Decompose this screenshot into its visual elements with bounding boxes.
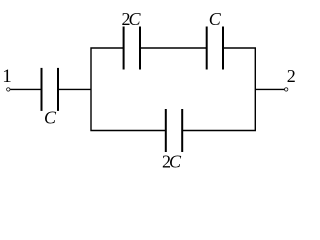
wire left junction corners (top-left and bottom-left of loop) — [91, 48, 166, 131]
capacitor C3 left plate (top C) — [206, 27, 208, 70]
capacitor C3 right plate (top C) — [222, 27, 224, 70]
wire C1 to left junction — [58, 88, 91, 90]
wire right junction corners (top-right and bottom-right of loop) — [182, 48, 255, 131]
capacitor C2 right plate (top 2C) — [139, 27, 141, 70]
svg-text:2C: 2C — [121, 9, 141, 29]
svg-text:2C: 2C — [162, 151, 182, 171]
capacitor C2 left plate (top 2C) — [123, 27, 125, 70]
capacitor C1 left plate — [41, 68, 43, 111]
svg-text:1: 1 — [2, 66, 12, 87]
node 1 terminal — [7, 88, 10, 91]
capacitor C1 right plate — [57, 68, 59, 111]
wire terminal1 to C1 — [10, 88, 41, 90]
capacitor C4 right plate (bottom 2C) — [181, 109, 183, 152]
node 2 terminal — [285, 88, 288, 91]
svg-text:2: 2 — [287, 66, 296, 86]
svg-text:C: C — [209, 9, 222, 29]
wire right junction to terminal 2 — [255, 88, 284, 90]
svg-text:C: C — [44, 107, 57, 127]
capacitor C4 left plate (bottom 2C) — [165, 109, 167, 152]
wire top rail between 2C and C — [140, 47, 207, 49]
